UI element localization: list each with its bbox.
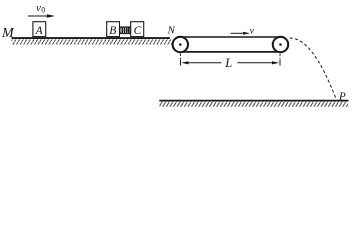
- block C: [131, 22, 144, 38]
- node M label: [1, 26, 15, 41]
- label v0: [36, 2, 45, 15]
- svg-text:C: C: [134, 25, 142, 37]
- point P label: [338, 90, 346, 102]
- ground surface M-N line: [12, 37, 171, 39]
- belt bottom line: [180, 51, 280, 53]
- dimension line L right segment with arrowhead: [237, 61, 279, 64]
- lower ground line: [159, 100, 348, 102]
- pulley left: [173, 37, 188, 52]
- dimension line L left segment with arrowhead: [181, 61, 221, 64]
- svg-text:N: N: [167, 25, 176, 37]
- projectile trajectory dashed curve: [290, 38, 336, 99]
- svg-text:P: P: [338, 90, 346, 102]
- svg-text:0: 0: [41, 6, 45, 15]
- belt velocity arrow v: [231, 32, 251, 35]
- node N label: [167, 25, 176, 37]
- svg-text:v: v: [36, 2, 41, 14]
- dashed extension line under right pulley: [279, 54, 281, 66]
- svg-text:v: v: [250, 26, 255, 36]
- velocity arrow v0: [28, 14, 55, 17]
- svg-text:L: L: [224, 56, 232, 70]
- block B: [107, 22, 120, 38]
- svg-text:B: B: [109, 25, 116, 37]
- label L: [224, 56, 232, 70]
- pulley right: [273, 37, 288, 52]
- label v: [250, 26, 255, 36]
- ground surface M-N hatching: [12, 39, 173, 44]
- lower ground hatching: [160, 102, 349, 107]
- dashed extension line under left pulley: [180, 54, 182, 66]
- block A: [33, 22, 46, 38]
- spring between B and C: [120, 27, 131, 34]
- svg-text:A: A: [35, 25, 44, 37]
- belt top line: [180, 36, 280, 38]
